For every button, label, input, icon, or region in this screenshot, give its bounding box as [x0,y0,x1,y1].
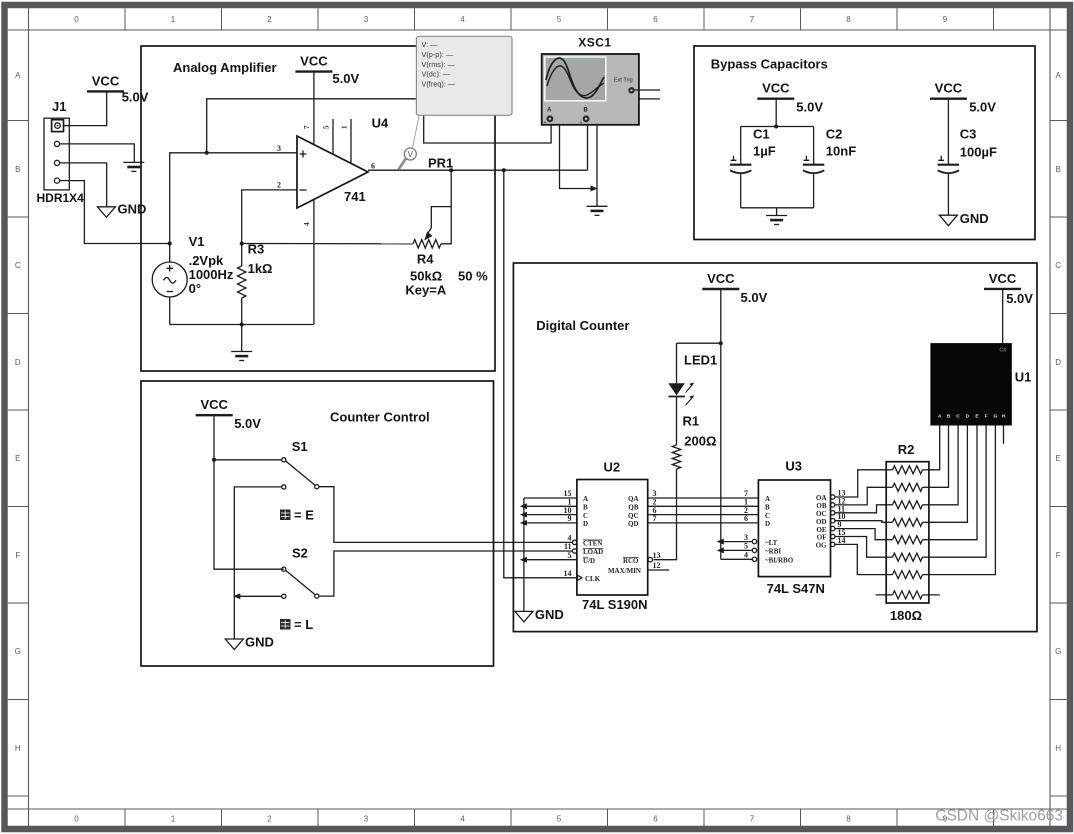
svg-text:V(p-p): —: V(p-p): — [422,50,454,59]
op-amp pin 1 stub [350,119,352,163]
svg-text:1000Hz: 1000Hz [189,267,234,282]
svg-text:C: C [1055,261,1061,270]
power VCC (J1) [87,73,149,104]
power VCC (LED / U3) [702,271,767,305]
wire ground stem [241,325,243,352]
svg-text:H: H [1002,414,1006,420]
svg-text:R1: R1 [683,414,700,429]
wire VCC to J1 pin1 [64,91,107,125]
node: R3 top junction [240,242,244,246]
svg-text:14: 14 [564,569,572,578]
power VCC (op-amp) [295,54,359,87]
node: S1 feed junction [212,458,216,462]
svg-text:3: 3 [364,815,369,824]
svg-text:5.0V: 5.0V [332,71,359,86]
svg-text:V(rms): —: V(rms): — [422,60,456,69]
svg-text:C: C [956,414,960,420]
U2 CTEN bubble [572,540,576,544]
svg-text:3: 3 [744,533,748,542]
svg-text:~RBI: ~RBI [765,548,781,556]
svg-text:= E: = E [294,508,314,523]
svg-text:5.0V: 5.0V [234,416,261,431]
svg-text:0: 0 [74,15,79,24]
svg-text:7: 7 [750,815,755,824]
wire op-amp output PR1 net [368,169,588,171]
svg-text:LED1: LED1 [684,353,717,368]
svg-text:C3: C3 [960,127,977,142]
svg-text:OC: OC [816,510,827,518]
svg-text:10nF: 10nF [826,144,856,159]
svg-text:B: B [584,108,589,114]
svg-text:S1: S1 [292,439,308,454]
svg-text:50 %: 50 % [458,269,488,284]
svg-text:1kΩ: 1kΩ [248,261,273,276]
earth ground (C1 C2) [766,216,787,225]
node: R3 bottom junction [240,323,244,327]
op-amp U4 741 [277,116,389,209]
svg-text:5.0V: 5.0V [969,100,996,115]
svg-text:100µF: 100µF [960,145,997,160]
svg-text:GND: GND [245,635,274,650]
switch S1 [282,439,319,489]
svg-text:A: A [938,414,942,420]
svg-text:OD: OD [816,518,827,526]
svg-text:XSC1: XSC1 [578,36,611,50]
svg-text:12: 12 [653,561,661,570]
svg-text:5.0V: 5.0V [122,89,149,104]
wire J1 pin2 to earth ground [60,144,135,163]
svg-text:S2: S2 [292,546,308,561]
svg-text:5.0V: 5.0V [1006,291,1033,306]
svg-text:+: + [580,120,583,126]
svg-text:VCC: VCC [707,271,735,286]
wire CLK from PR1 net [504,170,577,578]
svg-text:CTEN: CTEN [583,540,602,548]
S1 key label [280,508,314,523]
svg-text:OF: OF [817,534,827,542]
svg-text:D: D [583,520,588,528]
svg-text:D: D [765,520,770,528]
svg-text:6: 6 [371,162,375,171]
power VCC (C3) [930,81,996,115]
svg-text:MAX/MIN: MAX/MIN [608,567,641,575]
svg-text:B: B [947,414,951,420]
wire scope B- to ground [596,125,598,207]
svg-text:5.0V: 5.0V [741,290,768,305]
svg-text:6: 6 [653,15,658,24]
svg-text:+: + [544,120,547,126]
U2 LOAD bubble [572,549,576,553]
svg-text:VCC: VCC [762,81,790,96]
capacitor C3 100uF [938,99,997,216]
connector J1 HDR1X4 [37,99,85,205]
wire VCC stem down to U3 enable bus [720,289,722,559]
svg-text:0: 0 [74,815,79,824]
svg-text:RCO: RCO [623,557,639,565]
wire R3 rail to R4 [242,243,413,245]
svg-text:Analog Amplifier: Analog Amplifier [173,60,277,75]
U2 ground bus [523,498,525,611]
svg-text:V(freq): —: V(freq): — [422,80,456,89]
svg-text:D: D [15,358,21,367]
node: cap rail junction [774,125,778,129]
earth ground (J1 pin2) [123,162,144,171]
svg-text:GND: GND [535,607,564,622]
svg-text:8: 8 [846,15,851,24]
svg-text:J1: J1 [52,99,66,114]
svg-text:H: H [1055,744,1061,753]
svg-text:A: A [583,495,588,503]
LED LED1 [668,343,717,405]
svg-text:OA: OA [816,494,827,502]
wire LED branch [677,342,721,344]
svg-text:GND: GND [960,211,989,226]
svg-text:4: 4 [460,15,465,24]
svg-text:CLK: CLK [585,575,601,583]
svg-text:OG: OG [816,542,827,550]
resistor R1 200 [654,397,717,560]
svg-text:GND: GND [118,201,147,216]
wire S1 feed [214,459,282,461]
svg-text:1: 1 [171,15,176,24]
svg-text:A: A [765,495,770,503]
svg-text:QD: QD [628,520,639,528]
svg-text:.2Vpk: .2Vpk [189,253,224,268]
earth ground (R3/V1 rail) [231,352,252,361]
svg-text:VCC: VCC [200,397,228,412]
svg-text:U4: U4 [372,116,389,131]
svg-text:PR1: PR1 [428,156,453,171]
svg-text:A: A [15,71,21,80]
S2 key label [280,617,313,632]
resistor R3 1k [238,242,273,325]
svg-text:6: 6 [653,815,658,824]
op-amp pin 4 wire to bottom rail [313,199,315,324]
source V1 [152,234,234,297]
wire V1 bottom [169,297,171,325]
svg-text:D: D [1055,358,1061,367]
svg-text:74L S190N: 74L S190N [582,597,648,612]
power VCC (switches) [196,397,262,431]
svg-text:QB: QB [628,504,638,512]
Analog Amplifier section box [141,46,495,371]
svg-text:13: 13 [653,551,661,560]
svg-text:C1: C1 [753,127,770,142]
svg-text:V: V [408,150,414,159]
svg-text:1µF: 1µF [753,144,776,159]
svg-text:V1: V1 [189,234,205,249]
svg-text:VCC: VCC [300,54,328,69]
svg-text:C: C [765,512,770,520]
svg-text:50kΩ: 50kΩ [410,269,442,284]
op-amp pin 5 stub [332,119,334,154]
capacitor C1 1uF [730,127,776,208]
svg-text:LOAD: LOAD [583,548,603,556]
wires U2 QA-QD to U3 A-D [648,497,759,499]
svg-text:U/D: U/D [583,557,595,565]
wire scope A- to ground [560,125,598,189]
svg-text:Counter Control: Counter Control [330,410,430,425]
svg-text:741: 741 [344,189,366,204]
svg-text:Ext Trig: Ext Trig [614,78,633,84]
ground GND (J1 pin3) [97,201,146,217]
svg-text:U1: U1 [1015,370,1032,385]
svg-text:5.0V: 5.0V [796,100,823,115]
svg-text:7: 7 [303,125,311,129]
svg-text:7: 7 [750,15,755,24]
Digital Counter section box [513,263,1037,632]
svg-text:14: 14 [838,536,846,545]
wire input rail up to op-amp pin3 [170,153,297,262]
resistor pack R2 180 [876,442,940,623]
svg-text:B: B [583,504,588,512]
svg-text:B: B [765,504,770,512]
IC U2 74LS190N [577,460,648,613]
svg-text:7: 7 [653,514,657,523]
svg-text:QC: QC [628,512,639,520]
ground GND (switches) [225,635,274,650]
svg-text:U2: U2 [604,460,621,475]
svg-text:R2: R2 [898,442,915,457]
svg-text:2: 2 [277,181,281,190]
svg-text:5: 5 [568,551,572,560]
svg-text:6: 6 [744,514,748,523]
svg-text:H: H [15,744,21,753]
svg-text:180Ω: 180Ω [890,608,922,623]
node: R4 junction on output [449,168,453,172]
svg-text:C: C [583,512,588,520]
svg-text:V: —: V: — [422,40,439,49]
wire cap bottom rail [741,207,814,209]
wire S2 NC throw to gnd rail [234,595,281,597]
svg-text:OB: OB [816,502,826,510]
svg-text:U3: U3 [785,459,802,474]
svg-text:V(dc): —: V(dc): — [422,70,451,79]
svg-text:4: 4 [303,222,311,226]
svg-text:8: 8 [846,815,851,824]
wire scope B+ to PR1 net [587,125,589,170]
svg-text:5: 5 [557,815,562,824]
svg-text:1: 1 [171,815,176,824]
wire ground stem [776,208,778,216]
U3 enable pin wires from VCC bus [721,541,753,543]
svg-text:= L: = L [294,617,313,632]
ground GND (U2 inputs) [515,607,564,622]
svg-text:C2: C2 [826,127,843,142]
svg-text:F: F [1056,551,1061,560]
svg-text:3: 3 [277,144,281,153]
svg-text:4: 4 [744,551,748,560]
svg-text:74L S47N: 74L S47N [767,581,825,596]
probe PR1 readout box [416,36,512,115]
node: V1 top / input rail junction [168,242,172,246]
U2 input pin stubs A-D [524,497,577,499]
U3 output bubbles and pin numbers right [831,495,835,499]
svg-text:5: 5 [557,15,562,24]
svg-text:E: E [1056,454,1061,463]
seven-segment display U1 [930,343,1031,425]
node: feedback tap junction [205,151,209,155]
potentiometer R4 50k [405,170,488,297]
svg-text:Bypass Capacitors: Bypass Capacitors [711,57,828,72]
earth ground (scope) [587,206,608,215]
svg-text:3: 3 [364,15,369,24]
svg-text:G: G [15,647,21,656]
wire VCC stem down to S2 [214,415,284,569]
wires R2 to display U1 pins [929,426,940,470]
U2 RCO bubble [648,558,652,562]
svg-text:CA: CA [1000,348,1008,354]
svg-text:F: F [985,414,988,420]
power VCC (U1) [984,271,1033,306]
oscilloscope XSC1 [542,36,660,127]
svg-text:E: E [15,454,20,463]
wire cap top rail [741,126,814,128]
svg-text:A: A [547,108,552,114]
wire op-amp pin2 to R3 [242,190,297,244]
wire S1 NC throw to gnd rail [234,487,281,639]
svg-text:CSDN @Skiko663: CSDN @Skiko663 [935,808,1063,825]
svg-text:VCC: VCC [989,271,1017,286]
svg-text:2: 2 [267,815,272,824]
wire VCC to op-amp pin7 [313,72,315,145]
svg-text:A: A [1056,71,1062,80]
node: CLK wire junction on output [502,168,506,172]
svg-text:Key=A: Key=A [405,283,446,298]
wire J1 pin4 to input rail [60,181,170,244]
Counter Control section box [141,381,494,666]
svg-text:200Ω: 200Ω [684,434,716,449]
svg-text:~BI/RBO: ~BI/RBO [765,557,794,565]
ground GND (C3) [939,211,988,226]
probe PR1 [399,116,454,171]
U1 pin H stub [1003,426,1005,444]
svg-text:2: 2 [267,15,272,24]
svg-text:9: 9 [568,514,572,523]
svg-text:QA: QA [628,495,639,503]
svg-text:0°: 0° [189,281,201,296]
svg-text:B: B [1056,165,1061,174]
svg-text:G: G [994,414,998,420]
wire VCC to U1 [1002,289,1004,343]
wire J1 pin3 to GND [60,163,107,207]
svg-text:VCC: VCC [92,73,120,88]
svg-text:4: 4 [460,815,465,824]
capacitor C2 10nF [803,127,856,208]
wire U2 MAX/MIN stub [648,569,669,571]
svg-text:F: F [15,551,20,560]
svg-text:G: G [1055,647,1061,656]
svg-text:VCC: VCC [935,81,963,96]
svg-text:~LT: ~LT [765,539,778,547]
wires U3 OA-OG to R2 [835,470,886,497]
node: LED branch junction [719,341,723,345]
svg-text:1: 1 [341,125,349,129]
svg-text:11: 11 [564,542,572,551]
svg-text:C: C [15,261,21,270]
wire S1 pole to CTEN (U2 pin4) [319,487,573,543]
svg-text:D: D [966,414,970,420]
Bypass Capacitors section box [694,46,1035,240]
switch S2 [282,546,319,599]
IC U3 74LS47N [758,459,830,597]
svg-text:9: 9 [943,15,948,24]
wire VCC stem to cap rail [775,99,777,127]
svg-text:5: 5 [744,542,748,551]
svg-text:R4: R4 [417,252,434,267]
power VCC (C1 C2) [757,81,823,115]
U2 U/D pin stub [524,559,577,561]
svg-text:5: 5 [323,125,331,129]
wire bottom rail [170,324,314,326]
wire feedback tap to scope A (runs under probe readout) [207,99,551,153]
svg-text:Digital Counter: Digital Counter [536,318,629,333]
wire S2 pole to LOAD (U2 pin11) [319,551,573,596]
svg-text:OE: OE [816,526,826,534]
svg-text:HDR1X4: HDR1X4 [37,191,85,205]
svg-text:B: B [15,165,20,174]
